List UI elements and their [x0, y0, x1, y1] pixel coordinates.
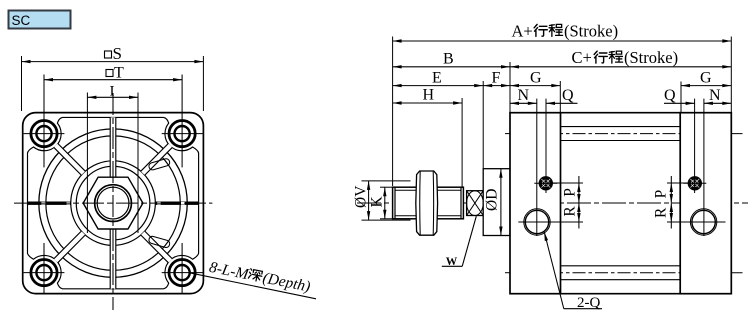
dimension I: [86, 93, 88, 234]
svg-text:W: W: [446, 256, 458, 268]
front sensor screw: [539, 176, 553, 190]
front port 2-Q: [525, 210, 548, 233]
rear sensor screw: [688, 176, 702, 190]
svg-text:K: K: [369, 196, 386, 208]
svg-text:S: S: [113, 44, 122, 63]
svg-text:P: P: [562, 188, 579, 197]
rod gland collar: [483, 169, 510, 236]
dimension K: [380, 186, 393, 188]
dimension A+stroke: [393, 40, 732, 42]
piston rod circles: [95, 185, 132, 222]
rod nut hexagon: [83, 177, 143, 229]
SC series title box: [9, 11, 71, 29]
extension lines: [392, 37, 394, 187]
vertical rib top: [110, 117, 116, 177]
piston rod thread: [393, 187, 464, 219]
svg-text:R: R: [653, 207, 670, 218]
dimension N rear: [704, 102, 731, 104]
svg-text:A+: A+: [512, 21, 533, 40]
svg-text:P: P: [653, 190, 670, 199]
dimension OD: [500, 169, 502, 236]
rear port 2-Q: [692, 210, 715, 233]
leader 8-L-M depth: [189, 273, 316, 299]
dimension B: [393, 66, 510, 68]
center boss circles: [71, 161, 156, 246]
wrench flats symbol: [467, 191, 484, 216]
dimension G rear: [681, 85, 731, 87]
tie-rod nuts (4 corner bolts): [31, 121, 57, 147]
bolt centerlines: [43, 75, 45, 168]
dimension E: [393, 85, 484, 87]
dimension F: [483, 85, 510, 87]
svg-text:E: E: [432, 70, 442, 87]
svg-text:G: G: [700, 70, 712, 87]
dimension P R rear: [667, 182, 689, 184]
svg-text:R: R: [562, 206, 579, 217]
2-Q label: [544, 232, 564, 309]
cylinder tube profile circles: [39, 129, 187, 277]
svg-text:I: I: [110, 84, 115, 100]
dimension H: [393, 102, 463, 104]
svg-text:G: G: [530, 70, 542, 87]
svg-text:SC: SC: [12, 13, 31, 28]
svg-text:N: N: [518, 87, 530, 104]
dimension Q front: [546, 102, 578, 104]
dimension T: [44, 79, 182, 81]
front view inner contour with corner pockets: [28, 117, 199, 288]
svg-text:(Stroke): (Stroke): [564, 21, 618, 40]
rear head: [680, 113, 731, 294]
dimension N front: [510, 102, 537, 104]
front view centerlines: [14, 202, 212, 204]
svg-text:F: F: [492, 70, 501, 87]
svg-text:(Stroke): (Stroke): [624, 48, 678, 67]
sensor slot tab upper right: [148, 158, 170, 171]
front head: [510, 113, 561, 294]
front view outer square end cap: [23, 113, 204, 294]
rod nut (side): [416, 171, 438, 235]
svg-text:Q: Q: [562, 87, 574, 104]
dimension G front: [510, 85, 560, 87]
dimension C+stroke: [510, 66, 731, 68]
tie rod centerline bottom: [505, 272, 743, 274]
dimension S: [21, 56, 23, 111]
side view main centerline: [357, 202, 748, 204]
sensor slot tab lower right: [148, 236, 170, 249]
svg-text:ØD: ØD: [484, 189, 501, 211]
dimension Q rear: [664, 102, 695, 104]
W label: [462, 216, 476, 266]
svg-text:H: H: [423, 87, 435, 104]
svg-text:T: T: [114, 65, 124, 82]
diagonal ribs to corners: [54, 143, 86, 175]
svg-text:C+: C+: [572, 48, 592, 67]
svg-text:B: B: [443, 51, 454, 68]
horizontal rib band right: [155, 202, 198, 205]
svg-text:Q: Q: [664, 87, 676, 104]
horizontal rib band left: [28, 202, 71, 205]
svg-text:2-Q: 2-Q: [577, 295, 600, 311]
barrel lines: [561, 112, 681, 114]
dimension OV: [362, 180, 411, 182]
tie rod centerline top: [505, 133, 743, 135]
svg-text:N: N: [709, 87, 721, 104]
vertical rib bottom: [110, 229, 116, 289]
dimension P R front: [552, 182, 583, 184]
svg-text:ØV: ØV: [353, 185, 370, 208]
